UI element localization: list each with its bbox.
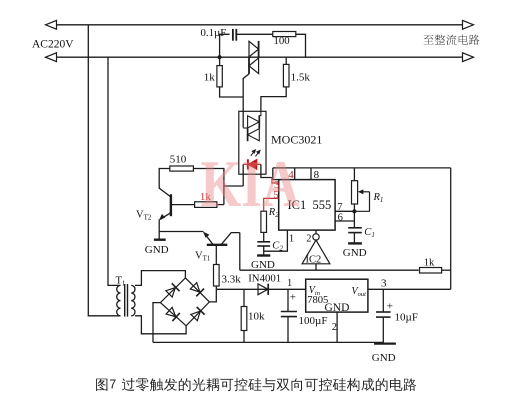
triac VS lower diode — [249, 58, 259, 74]
potentiometer R1 — [352, 181, 358, 204]
bridge diamond — [160, 278, 209, 326]
arrow left line1 — [46, 20, 57, 29]
capacitor C1 — [348, 227, 362, 229]
caption text — [122, 378, 416, 391]
svg-text:0.1µF: 0.1µF — [201, 27, 227, 39]
optocoupler U1 MOC3021 box — [239, 111, 266, 174]
wire tick pin8 — [310, 168, 312, 180]
wire C2 to GND2 — [263, 246, 265, 255]
VT1 emitter — [204, 233, 213, 245]
wire MOC to 555 pin3 (red) — [272, 178, 279, 184]
label 至整流电路 — [424, 35, 480, 45]
wire MOC pin bottom-left — [242, 164, 244, 186]
wire MOC pin bottom-right — [261, 164, 272, 177]
svg-text:2: 2 — [306, 234, 311, 245]
wire snubber right — [296, 34, 306, 57]
wire AC line2 — [56, 56, 463, 58]
wire R1 bottom — [353, 204, 355, 211]
svg-text:1: 1 — [287, 278, 292, 289]
transistor Q-VT1 bar — [207, 244, 228, 246]
wire C1 to GND3 — [353, 233, 355, 243]
wire VT1 collector drop — [239, 233, 241, 271]
svg-text:510: 510 — [170, 154, 187, 166]
wire MOC pin top-right — [259, 111, 261, 115]
wire ground rail — [153, 341, 383, 343]
LED D-led (red) — [248, 160, 257, 170]
wire 510 right to staircase — [193, 169, 224, 205]
svg-text:7: 7 — [109, 378, 116, 392]
wire 1k top stem — [219, 57, 221, 65]
bridge diode D3 (L-B) — [165, 307, 179, 321]
resistor 1k horiz — [195, 202, 217, 208]
wire pin2 stub — [315, 230, 317, 234]
resistor 10k — [241, 307, 247, 331]
wire R2 to C2 — [263, 232, 265, 241]
transformer core — [124, 284, 126, 317]
triac VS upper diode — [249, 41, 259, 57]
wire 100uF top — [287, 289, 289, 311]
wire 100uF bottom — [287, 317, 289, 343]
wire pin6 — [335, 220, 354, 222]
inverter IC2 triangle — [302, 240, 330, 264]
wire staircase to 1k-h — [217, 204, 224, 206]
svg-text:GND: GND — [251, 259, 275, 271]
svg-text:100µF: 100µF — [299, 315, 328, 327]
svg-text:100: 100 — [274, 35, 290, 47]
wire emitter node to VT1 — [159, 231, 203, 233]
ground GND4 — [374, 343, 396, 345]
wire zero-cross rail — [240, 269, 419, 271]
wire 10uF top — [382, 289, 384, 312]
svg-text:3.3k: 3.3k — [222, 274, 242, 286]
wire junction to C1 — [353, 211, 355, 227]
svg-text:AC220V: AC220V — [32, 39, 74, 51]
svg-text:GND: GND — [372, 352, 396, 364]
ic IC1 555 box — [279, 180, 335, 231]
svg-text:7: 7 — [337, 202, 342, 213]
resistor 510 — [170, 166, 194, 171]
wire pin7 — [335, 210, 354, 212]
caption 图7 — [96, 379, 107, 391]
wire bridge plus to node B — [209, 289, 216, 302]
wire 10uF bottom — [382, 317, 384, 343]
resistor 1k left — [217, 66, 222, 87]
wire 1.5k bottom to MOC — [261, 87, 286, 111]
transformer T1 secondary winding — [131, 285, 135, 315]
triac gate lead — [243, 74, 249, 97]
svg-text:IC2: IC2 — [306, 255, 322, 266]
capacitor C2 — [257, 241, 270, 243]
wire phototriac lower bar to pin — [243, 127, 247, 129]
regulator U-7805 box — [306, 279, 368, 312]
wire Vcc rail — [273, 167, 451, 169]
wire secondary bottom — [135, 316, 186, 334]
svg-text:1.5k: 1.5k — [291, 71, 311, 83]
svg-text:1k: 1k — [204, 71, 216, 83]
wire 1k bottom to gate — [220, 87, 244, 97]
resistor 1k pullup — [420, 268, 442, 274]
wire tick pin4 right — [294, 168, 296, 180]
diode D-IN4001 — [258, 284, 268, 295]
wire VT2 base — [171, 204, 195, 206]
LED emission arrows — [251, 150, 260, 157]
wire drop from line1 to T1 primary bottom — [88, 25, 120, 316]
wire drop from line2 to T1 primary top — [108, 57, 121, 285]
wire secondary top — [135, 271, 185, 286]
resistor 1.5k — [283, 64, 289, 87]
bridge diode D1 (L-T) — [165, 283, 179, 297]
wire AC line1 (top) — [56, 24, 463, 26]
resistor 100 — [273, 32, 296, 37]
arrow right line1 — [463, 20, 474, 29]
wire 555 top overhang — [273, 179, 279, 181]
wire pin5 to R2 (red) — [264, 198, 279, 211]
wire rail to right vert — [442, 269, 451, 271]
VT2 emitter — [160, 213, 171, 220]
wire staircase to MOC pin — [224, 185, 243, 187]
wire to GND1 — [158, 232, 160, 240]
wire cap to R100 — [236, 33, 272, 35]
bridge diode D4 (B-R) — [190, 307, 204, 321]
svg-text:+: + — [290, 292, 296, 304]
svg-text:MOC3021: MOC3021 — [271, 133, 322, 147]
svg-text:10µF: 10µF — [395, 312, 418, 324]
arrow left line2 — [46, 53, 57, 62]
svg-text:10k: 10k — [248, 310, 265, 322]
capacitor 10uF — [376, 311, 391, 313]
svg-text:+: + — [387, 300, 393, 312]
wire 7805 pin2 down — [336, 312, 338, 342]
node A junction dot on line2 — [218, 55, 222, 59]
VT2 collector — [159, 169, 171, 198]
wire 3.3k to node B — [215, 286, 217, 289]
wire IC2 input — [315, 264, 317, 270]
bridge diode D2 (T-R) — [190, 282, 204, 296]
svg-text:GND: GND — [343, 247, 367, 259]
wire VT2 emitter down — [158, 219, 160, 231]
ground GND1 — [154, 238, 166, 240]
wire MOC pin top-left — [242, 97, 244, 128]
wire bridge minus to ground rail — [153, 303, 160, 343]
capacitor 0.1uF — [232, 29, 234, 41]
wire R1 wiper down — [354, 192, 369, 212]
photo-triac lower diode — [248, 129, 260, 141]
wire 10k bottom — [243, 331, 245, 343]
inverter IC2 bubble — [313, 234, 319, 240]
svg-text:1k: 1k — [424, 258, 435, 269]
photo-triac upper diode — [248, 116, 260, 128]
wire pin1 — [264, 230, 288, 251]
wire 7805 out — [368, 288, 451, 290]
capacitor 100uF — [281, 311, 297, 313]
R1 wiper arrow — [360, 191, 370, 193]
svg-text:KIA: KIA — [201, 147, 300, 220]
node R1 junction dot — [352, 209, 356, 213]
wire 10k top — [243, 289, 245, 306]
svg-text:2: 2 — [332, 322, 337, 333]
wire right vertical — [450, 168, 452, 289]
resistor R2 — [261, 211, 267, 232]
ground GND3 — [348, 242, 362, 244]
ground GND2 — [257, 254, 270, 256]
wire 1.5k top stem — [285, 57, 287, 64]
resistor 3.3k — [214, 265, 220, 287]
svg-text:GND: GND — [145, 244, 169, 256]
svg-text:3: 3 — [381, 278, 387, 290]
wire node B to 7805 — [216, 288, 305, 290]
svg-text:6: 6 — [338, 212, 343, 223]
wire R1 top stem — [353, 168, 355, 181]
VT1 collector — [221, 233, 240, 245]
svg-text:IN4001: IN4001 — [248, 273, 281, 285]
arrow right line2 — [463, 53, 474, 62]
wire VT1 base down — [215, 245, 217, 265]
svg-text:1: 1 — [289, 234, 294, 245]
wire snubber left — [220, 34, 230, 57]
transformer T1 primary winding — [117, 285, 121, 315]
wire tick pin4 left — [272, 168, 274, 180]
transistor Q-VT2 bar — [170, 194, 172, 216]
